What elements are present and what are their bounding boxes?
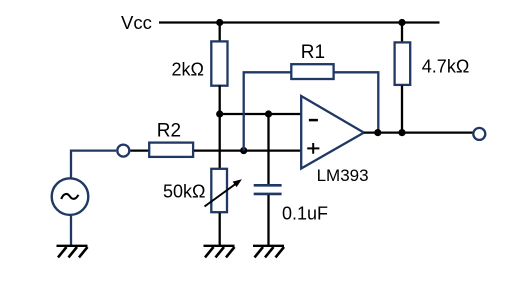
wire: feedback left leg (navy) [244,72,292,150]
wire: Vcc rail [159,21,440,23]
ground under AC source [57,246,88,258]
op-amp LM393 triangle [301,96,364,169]
node: cap tap on minus line [265,110,272,117]
svg-text:0.1uF: 0.1uF [282,203,328,223]
capacitor 0.1uF plates [254,185,282,194]
op-amp minus sign [309,119,318,122]
node: Vcc / 2k junction [216,19,223,26]
wire: minus line tap down to capacitor [267,114,269,184]
node: output / pull-up junction [398,129,405,136]
node: output / feedback junction [374,129,381,136]
wire: Vcc to 2k resistor top [219,23,221,43]
node: Vcc / 4.7k junction [398,19,405,26]
resistor 2k body [211,41,227,85]
arrow of variable resistor 50k [205,179,242,206]
wire: AC source bottom to ground (navy) [70,214,72,245]
AC source sine symbol [61,194,78,199]
wire: capacitor bottom to ground [267,195,269,245]
wire: Vcc to 4.7k top [401,23,403,44]
output terminal circle [473,128,485,140]
node: divider / minus-input junction [216,110,223,117]
wire: input terminal to R2 [130,149,148,151]
svg-text:R2: R2 [157,120,181,141]
svg-text:2kΩ: 2kΩ [172,60,204,80]
AC source V1 circle [52,178,89,215]
wire: 4.7k bottom to output node [401,86,403,133]
wire: divider node down to 50k top [219,114,221,169]
node: feedback / plus-input junction [240,147,247,154]
wire: 50k bottom to ground [219,213,221,245]
wire: 2k bottom to minus node [219,85,221,114]
resistor R2 body [149,143,193,157]
svg-text:4.7kΩ: 4.7kΩ [422,57,469,77]
wire: source to input terminal (navy) [71,151,116,180]
resistor 4.7k body [395,42,411,85]
svg-text:R1: R1 [301,42,325,63]
wire: minus input line [220,113,302,115]
op-amp plus sign [307,143,319,154]
ground under 50k [204,246,235,258]
resistor 50k body [211,169,227,212]
wire: op-amp output line [364,131,473,133]
svg-text:Vcc: Vcc [121,12,152,33]
ground under capacitor [253,246,284,258]
input terminal circle [117,145,129,157]
resistor R1 body [291,64,333,79]
wire: feedback right leg (navy) [334,72,378,132]
svg-text:50kΩ: 50kΩ [163,181,205,201]
svg-text:LM393: LM393 [317,166,369,185]
wire: R2 to plus input of op-amp [194,149,302,151]
